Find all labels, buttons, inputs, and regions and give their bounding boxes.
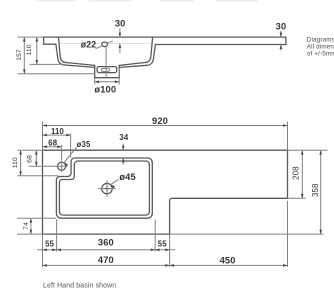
svg-text:of +/-5mm: of +/-5mm	[307, 51, 334, 58]
left extension y234.1	[17, 233, 43, 235]
section: waste fitting body	[97, 67, 117, 73]
920 extension right	[287, 122, 289, 151]
svg-text:470: 470	[98, 255, 114, 265]
svg-text:920: 920	[152, 116, 168, 126]
svg-text:157: 157	[16, 49, 23, 61]
section: right end cap	[285, 37, 287, 44]
left extension y150.2	[18, 149, 43, 151]
svg-text:358: 358	[311, 183, 320, 196]
section: far rim underside seen through bowl	[59, 42, 152, 44]
plan: L-shaped worktop outline	[43, 150, 288, 234]
dimension 74 line	[30, 218, 32, 234]
svg-text:55: 55	[158, 240, 167, 249]
svg-text:ø45: ø45	[119, 172, 135, 182]
section: waste slot	[101, 68, 109, 71]
tap hole o35 circle	[58, 162, 66, 170]
notes text block	[307, 36, 334, 57]
svg-text:68: 68	[27, 155, 34, 163]
right extension y150.2	[288, 149, 328, 151]
o45 leader	[111, 179, 119, 184]
dimension row 470/450 line	[43, 264, 288, 266]
waste hole crosshair	[98, 188, 116, 190]
left extension y175.8	[18, 175, 59, 177]
svg-text:All dimensions have a: All dimensions have a	[307, 43, 334, 50]
110 top extension	[70, 133, 72, 158]
svg-text:68: 68	[48, 139, 57, 148]
bottom ext x56.6	[56, 220, 58, 252]
svg-text:Left Hand basin shown: Left Hand basin shown	[43, 282, 116, 289]
bottom ext x287.5	[287, 201, 289, 267]
section: drain boss right wall	[118, 65, 120, 77]
svg-text:450: 450	[220, 255, 236, 265]
svg-text:110: 110	[26, 44, 33, 55]
o35 leader	[64, 148, 76, 163]
dimension 157 line	[23, 37, 25, 74]
dimension 34	[122, 144, 124, 151]
o100 extension right	[118, 67, 120, 84]
dimension 30 left	[119, 28, 121, 37]
svg-text:34: 34	[119, 133, 128, 142]
section: underside right of bowl	[155, 44, 286, 46]
svg-text:74: 74	[23, 222, 30, 230]
section: worktop top surface	[44, 36, 286, 38]
svg-text:55: 55	[45, 240, 54, 249]
svg-text:ø35: ø35	[77, 140, 91, 149]
dimension 110 section line	[36, 37, 38, 64]
svg-text:30: 30	[276, 22, 287, 32]
dimension 30 right	[280, 31, 282, 37]
section: bowl outer wall right	[119, 45, 155, 68]
plan: basin inner outline	[59, 161, 149, 215]
section: bowl inner wall right	[119, 37, 152, 65]
dimension row 55/360/55 line	[37, 249, 175, 251]
bottom extension to 358	[170, 233, 324, 235]
dimension 68 top line	[43, 146, 62, 148]
svg-text:110: 110	[51, 127, 65, 136]
68 top extension	[61, 145, 63, 160]
extension line bowl bottom left	[30, 63, 65, 65]
dimension 358 line	[320, 150, 322, 234]
section: drain boss bottom	[95, 77, 120, 79]
svg-text:ø100: ø100	[94, 85, 116, 95]
section: bowl inner wall left	[59, 37, 95, 65]
left extension y166.2	[29, 165, 58, 167]
dimension 920 line	[43, 125, 288, 127]
svg-text:110: 110	[12, 157, 19, 168]
svg-text:360: 360	[98, 238, 114, 248]
svg-text:30: 30	[115, 18, 126, 28]
bottom ext x155.2	[154, 220, 156, 252]
section: underside left of bowl	[44, 43, 56, 45]
o22 leader line	[96, 41, 113, 48]
dimension 110 left line	[20, 150, 22, 176]
plan: basin outer outline	[56, 158, 152, 218]
svg-text:ø22: ø22	[81, 39, 97, 49]
section: bowl outer wall left	[56, 44, 95, 67]
faint cropped text remnants at top edge	[37, 0, 258, 2]
waste hole o45 circle	[102, 183, 112, 193]
right extension y198.3	[288, 197, 306, 199]
tap hole crosshair	[55, 165, 67, 167]
overflow hole o22 symbol	[102, 42, 108, 47]
dimension 208 line	[301, 150, 303, 198]
section: left end cap	[43, 37, 45, 44]
bottom ext x169.6	[169, 234, 171, 267]
dimension 110 top line	[43, 134, 71, 136]
o100 extension left	[94, 78, 96, 85]
svg-text:208: 208	[292, 166, 301, 179]
dimension o100 line	[95, 81, 120, 83]
section: drain centreline	[105, 47, 107, 78]
left extension y218.2	[17, 217, 56, 219]
920 extension left	[42, 122, 44, 151]
extension line drain bottom left	[18, 73, 95, 75]
extension line top-left of section	[18, 36, 44, 38]
bottom ext x42.5	[42, 234, 44, 267]
section: drain boss left wall	[94, 65, 96, 77]
dimension 68 left line	[35, 150, 37, 166]
svg-text:Diagrams are not to s: Diagrams are not to s	[307, 36, 334, 43]
